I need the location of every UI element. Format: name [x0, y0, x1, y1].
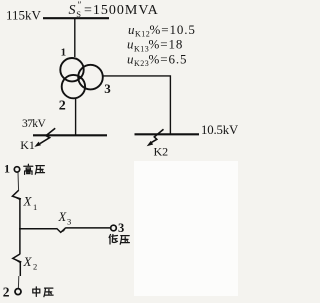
- svg-text:=1500MVA: =1500MVA: [84, 3, 159, 18]
- svg-text:u: u: [127, 37, 134, 52]
- label uK13%=18: [127, 37, 183, 54]
- svg-text:K2: K2: [154, 145, 169, 159]
- source label S''_S =1500MVA: [69, 1, 159, 19]
- node 1 terminal: [14, 167, 19, 172]
- label 高压: [24, 164, 45, 174]
- wire junction to X3: [19, 228, 57, 230]
- 37kV busbar: [33, 134, 107, 136]
- 中: [33, 287, 40, 297]
- svg-text:″: ″: [78, 1, 82, 11]
- label X3: [58, 210, 72, 226]
- svg-text:X: X: [58, 210, 68, 224]
- wire winding 3 to 10.5kV busbar: [103, 76, 170, 134]
- svg-text:1: 1: [4, 162, 10, 176]
- svg-text:37kV: 37kV: [22, 118, 46, 130]
- svg-text:3: 3: [118, 221, 124, 235]
- wire X1 to junction: [19, 199, 21, 230]
- 低: [109, 235, 117, 245]
- svg-text:X: X: [23, 254, 33, 269]
- fault arrow K1: [34, 128, 55, 147]
- svg-text:115kV: 115kV: [6, 7, 42, 22]
- svg-text:S: S: [69, 3, 76, 18]
- svg-text:u: u: [127, 51, 134, 66]
- white patch bottom-right: [134, 161, 238, 296]
- wire winding 2 to 37kV busbar: [75, 99, 77, 136]
- label uK23%=6.5: [127, 51, 187, 68]
- transformer winding 1: [60, 58, 83, 81]
- svg-text:K13: K13: [134, 44, 149, 53]
- wire junction to X2: [19, 229, 21, 255]
- label 低压: [109, 235, 129, 245]
- wire X3 to node 3: [65, 227, 110, 229]
- reactance X1: [12, 190, 21, 200]
- 压: [35, 166, 44, 175]
- svg-text:3: 3: [67, 216, 71, 226]
- svg-text:2: 2: [59, 99, 66, 114]
- svg-text:3: 3: [104, 81, 111, 96]
- svg-text:u: u: [128, 22, 135, 37]
- svg-text:1: 1: [61, 47, 67, 59]
- fault arrow K2: [147, 129, 164, 146]
- wire to node 2: [17, 276, 19, 288]
- reactance X3: [57, 228, 67, 233]
- svg-text:X: X: [23, 194, 33, 209]
- 10.5kV busbar: [135, 133, 200, 135]
- label X1: [23, 194, 38, 212]
- 高: [24, 164, 33, 174]
- svg-text:2: 2: [33, 262, 37, 272]
- node 3 terminal: [111, 225, 117, 231]
- label uK12%=10.5: [128, 22, 196, 39]
- page background: [0, 0, 238, 303]
- svg-text:K23: K23: [134, 59, 149, 68]
- label 中压: [33, 287, 53, 297]
- svg-text:2: 2: [3, 284, 10, 299]
- wire X2 down: [19, 262, 21, 276]
- 压: [120, 236, 129, 245]
- label X2: [23, 254, 38, 272]
- svg-text:1: 1: [33, 202, 37, 212]
- svg-text:%=18: %=18: [149, 37, 184, 52]
- wire node1 to X1: [17, 172, 20, 190]
- svg-text:%=6.5: %=6.5: [149, 51, 188, 66]
- 115kV busbar: [43, 17, 109, 19]
- transformer winding 3: [78, 65, 103, 90]
- node 2 terminal: [15, 289, 21, 295]
- svg-text:10.5kV: 10.5kV: [201, 123, 238, 137]
- svg-text:K1: K1: [20, 138, 35, 152]
- reactance X2: [13, 254, 22, 263]
- wire busbar to winding 1: [74, 18, 76, 57]
- 压: [44, 288, 53, 297]
- transformer winding 2: [62, 75, 85, 98]
- svg-text:%=10.5: %=10.5: [150, 22, 196, 37]
